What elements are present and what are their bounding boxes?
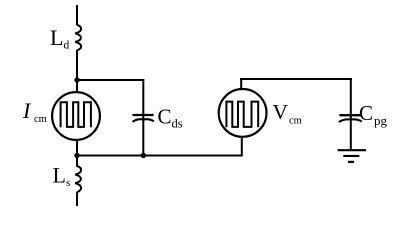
wire top-right rail bbox=[240, 78, 352, 80]
ground bar 3 bbox=[348, 161, 354, 163]
wire Cpg branch vertical bbox=[350, 78, 352, 150]
capacitor Cpg flat plate bbox=[339, 114, 361, 116]
wire node A to Icm top bbox=[76, 80, 78, 92]
ground bar 1 bbox=[338, 149, 367, 151]
wire bottom lead of Ls bbox=[76, 192, 78, 206]
wire Vcm bottom lead bbox=[241, 138, 243, 157]
inductor Ls bbox=[75, 166, 81, 192]
wire top lead of Ld bbox=[76, 5, 78, 25]
wire Icm bottom to node B bbox=[76, 140, 78, 156]
Vcm pulse waveform bbox=[226, 102, 258, 128]
wire Cds branch vertical bbox=[142, 79, 144, 156]
voltage source Vcm circle bbox=[219, 89, 267, 137]
svg-text:pg: pg bbox=[374, 113, 388, 128]
wire bottom rail bbox=[77, 155, 242, 157]
Icm pulse waveform bbox=[61, 102, 91, 127]
svg-text:V: V bbox=[273, 100, 289, 124]
svg-text:cm: cm bbox=[34, 114, 47, 125]
wire Ld to node A bbox=[76, 50, 78, 80]
svg-text:C: C bbox=[359, 101, 373, 125]
node A junction dot bbox=[74, 77, 79, 82]
ground bar 2 bbox=[343, 155, 359, 157]
capacitor Cds curved plate bbox=[133, 119, 154, 122]
capacitor Cpg curved plate bbox=[339, 119, 362, 122]
wire node B to Ls bbox=[76, 156, 78, 167]
node C junction dot bbox=[141, 153, 146, 158]
node B junction dot bbox=[74, 153, 79, 158]
wire Vcm top lead bbox=[240, 78, 242, 90]
svg-text:cm: cm bbox=[289, 116, 302, 127]
capacitor Cds flat plate bbox=[133, 114, 154, 116]
current source Icm circle bbox=[52, 92, 100, 140]
inductor Ld bbox=[75, 25, 81, 51]
wire top-left rail node A to Cds bbox=[77, 79, 144, 81]
